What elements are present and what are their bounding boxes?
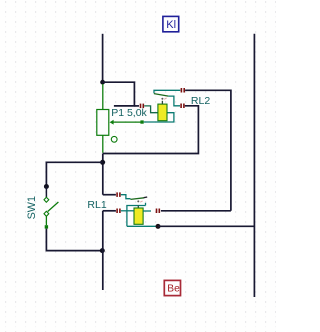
potentiometer P1 lead top (green) xyxy=(102,84,104,109)
label box Be xyxy=(164,280,180,295)
wire: RL2 NO to left rail (down and left) xyxy=(103,106,199,154)
wire: node B to SW1 xyxy=(46,162,102,185)
wire: node A to RL2 coil left (top horizontal + down) xyxy=(103,82,135,106)
relay RL2 coil top pin dot xyxy=(161,98,163,100)
switch SW1 lower contact diamond xyxy=(44,211,49,216)
connection dashes RL1 coil right xyxy=(156,209,160,214)
svg-text:Be: Be xyxy=(167,283,180,294)
wire: RL1 NC dashes to pivot xyxy=(121,195,131,199)
node C junction dot xyxy=(100,248,105,253)
potentiometer P1 marker circle xyxy=(111,136,117,142)
wire: right tall vertical xyxy=(253,34,255,297)
wire: left rail mid vertical xyxy=(102,154,104,195)
switch SW1 top dot xyxy=(44,184,49,189)
potentiometer P1 lead bottom (green) xyxy=(102,135,104,152)
relay RL1 fixed contact stub xyxy=(145,203,147,206)
relay RL1 coil top pin tick xyxy=(137,206,139,209)
svg-text:RL1: RL1 xyxy=(87,199,106,211)
relay RL2 coil pin speckle xyxy=(164,98,166,99)
switch SW1 pin square xyxy=(45,225,48,228)
wire: RL1 NC row from rail xyxy=(103,194,116,196)
wire: wiper node to RL2 coil right pin xyxy=(144,113,174,122)
relay RL1 coil top pin dot xyxy=(137,200,139,202)
switch SW1 top stub xyxy=(45,187,47,198)
label box Kl xyxy=(163,16,179,31)
relay RL1 coil xyxy=(134,208,143,224)
relay RL2 coil top pin tick xyxy=(161,101,163,104)
potentiometer P1 wiper arrow xyxy=(110,120,114,125)
connection dashes RL1 coil left xyxy=(116,209,120,214)
node A junction dot xyxy=(100,80,105,85)
connection dashes RL2 coil left xyxy=(140,104,144,109)
relay RL2 switch arm xyxy=(154,94,168,97)
wire: RL1 inner top row xyxy=(127,206,146,227)
connection dashes RL1 NC xyxy=(116,192,120,197)
wire: RL1 coil right pin to dashes xyxy=(143,210,151,212)
wire: RL1 coil right row to RL2 vertical xyxy=(161,210,231,212)
relay RL1 switch arm xyxy=(131,198,145,200)
potentiometer P1 body xyxy=(97,110,109,136)
connection dashes RL2 NO xyxy=(180,104,184,109)
wire: RL1 coil left row from rail xyxy=(103,210,116,212)
wire: RL2 pivot row to right vertical xyxy=(185,90,231,211)
svg-text:SW1: SW1 xyxy=(26,196,38,219)
relay RL1 coil pin speckle xyxy=(140,201,142,202)
svg-text:RL2: RL2 xyxy=(191,95,210,107)
connection dashes RL2 pivot xyxy=(181,88,185,93)
relay RL1 arm tip xyxy=(144,196,148,199)
svg-text:Kl: Kl xyxy=(166,19,176,31)
wire: RL1 bottom row teal xyxy=(127,225,156,227)
node D junction dot xyxy=(156,224,161,229)
wiper wire green to node square xyxy=(113,121,141,123)
svg-text:P1 5,0k: P1 5,0k xyxy=(111,107,147,119)
wire: SW1 bottom to node C xyxy=(46,229,101,251)
wire: dashes to RL2 coil left pin xyxy=(144,106,158,113)
wire: left rail bottom vertical xyxy=(102,211,104,290)
switch SW1 lever xyxy=(48,202,59,212)
node B junction dot xyxy=(100,160,105,165)
wire: RL1 coil left dashes to coil xyxy=(121,210,134,212)
wire: node D to right rail xyxy=(158,225,254,227)
wire: RL2 arm end to NO dashes xyxy=(168,96,180,106)
switch SW1 lower lead green xyxy=(45,216,47,225)
node square (wiper pin) xyxy=(140,120,143,123)
switch SW1 upper contact diamond xyxy=(44,197,49,202)
relay RL2 coil xyxy=(158,104,167,121)
wire: left rail top vertical xyxy=(102,34,104,82)
relay RL2 switch pivot wire xyxy=(154,90,180,93)
